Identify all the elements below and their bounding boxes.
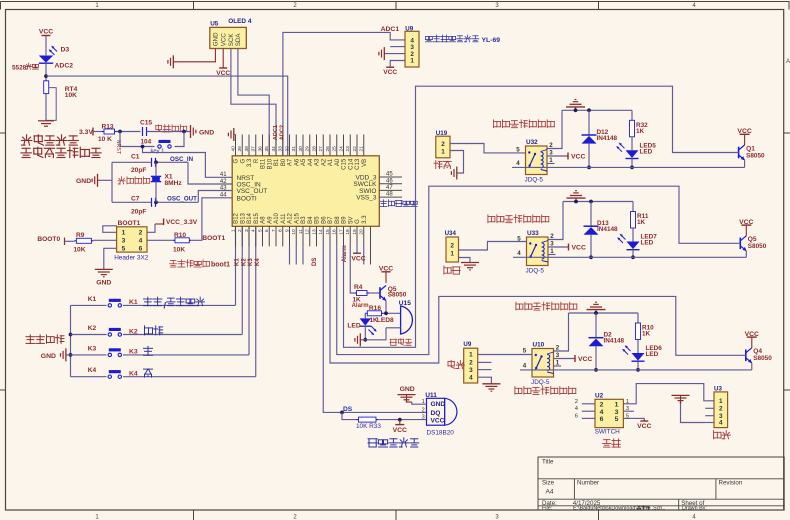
svg-text:3: 3 <box>626 406 629 412</box>
resistor R9 <box>74 240 76 242</box>
svg-text:GND: GND <box>431 401 446 408</box>
MCU right pins 45-48 <box>379 176 402 178</box>
wire relay pin1 stub <box>547 163 555 165</box>
label 水泵 <box>434 161 451 169</box>
wire OLED SCK to pin34 <box>231 49 276 156</box>
svg-text:33: 33 <box>278 146 284 152</box>
pin stub <box>705 400 714 402</box>
svg-text:2: 2 <box>719 406 723 413</box>
wire OLED SDA to pin35 <box>238 49 269 156</box>
svg-text:20pF: 20pF <box>131 167 146 174</box>
wire <box>631 159 633 168</box>
wire relay pin2 to rail <box>548 202 563 240</box>
power VCC (soil sensor) <box>386 66 394 68</box>
svg-text:24: 24 <box>338 146 344 152</box>
svg-text:B12: B12 <box>234 212 240 223</box>
svg-text:K2: K2 <box>129 328 138 335</box>
svg-text:34: 34 <box>271 146 277 152</box>
wire <box>156 161 189 163</box>
svg-text:U11: U11 <box>425 392 437 399</box>
svg-text:G: G <box>234 158 240 163</box>
ground (relay 2) <box>575 198 577 201</box>
wire <box>65 240 75 242</box>
diode D13 IN4148 <box>590 202 592 227</box>
svg-text:B14: B14 <box>247 212 253 223</box>
wire <box>450 151 464 174</box>
svg-text:Size: Size <box>542 480 555 487</box>
svg-text:1: 1 <box>719 398 723 405</box>
svg-text:1: 1 <box>626 399 629 405</box>
svg-text:2: 2 <box>441 141 445 148</box>
LED LED7 <box>632 228 634 242</box>
svg-text:DS: DS <box>312 258 318 266</box>
svg-text:LED: LED <box>640 148 653 155</box>
svg-text:5: 5 <box>626 413 629 419</box>
ground (crystal) <box>98 179 113 181</box>
svg-text:LED: LED <box>646 351 659 358</box>
svg-text:38: 38 <box>244 146 250 152</box>
svg-text:B13: B13 <box>240 212 246 223</box>
svg-text:GND: GND <box>400 386 415 393</box>
svg-text:C15: C15 <box>140 120 152 127</box>
svg-text:VB: VB <box>362 159 368 167</box>
wire <box>390 61 405 68</box>
svg-text:JDQ-5: JDQ-5 <box>531 379 550 386</box>
svg-text:boot1: boot1 <box>211 262 230 269</box>
label 继电器控制电路 (4) <box>515 387 576 395</box>
svg-text:C1: C1 <box>131 153 140 160</box>
svg-text:10: 10 <box>291 229 297 235</box>
capacitor C15 <box>142 127 144 136</box>
label 风扇 <box>444 266 460 274</box>
wire <box>588 143 590 167</box>
svg-text:4: 4 <box>517 250 521 257</box>
svg-text:S8050: S8050 <box>388 292 407 299</box>
svg-text:VCC: VCC <box>383 69 397 76</box>
crystal X1 <box>151 175 161 177</box>
ground (U19) <box>456 167 458 180</box>
resistor R32 1K <box>631 110 633 120</box>
svg-text:BOOTI: BOOTI <box>237 195 257 202</box>
relay U32 JDQ-5 <box>526 146 548 175</box>
svg-text:4: 4 <box>719 420 723 427</box>
svg-text:10K: 10K <box>65 92 77 99</box>
pin stub <box>705 422 714 424</box>
svg-text:12: 12 <box>305 229 311 235</box>
wire rail <box>562 109 632 111</box>
connector U9 soil sensor <box>405 31 419 67</box>
svg-text:U3: U3 <box>714 385 722 392</box>
svg-text:Revision: Revision <box>719 480 743 487</box>
svg-text:104: 104 <box>141 138 152 145</box>
wire <box>478 377 492 384</box>
svg-text:B5: B5 <box>315 216 321 224</box>
resistor R11 1K <box>632 202 634 212</box>
wire <box>112 201 152 203</box>
svg-text:11: 11 <box>298 229 304 234</box>
wire Q1 base from MCU pin17 <box>344 86 739 347</box>
svg-text:B4: B4 <box>308 216 314 224</box>
svg-text:B1: B1 <box>274 158 280 166</box>
svg-text:OSC_OUT: OSC_OUT <box>167 196 197 203</box>
svg-text:B15: B15 <box>254 212 260 223</box>
svg-text:3: 3 <box>122 238 126 245</box>
svg-text:ADC1: ADC1 <box>273 125 279 140</box>
wire <box>112 161 152 163</box>
svg-text:4: 4 <box>469 374 473 381</box>
wire K2 to MCU <box>241 226 243 334</box>
svg-text:K4: K4 <box>129 371 138 378</box>
svg-text:VCC: VCC <box>637 423 651 430</box>
svg-text:5: 5 <box>523 348 527 355</box>
power VCC (relay coil) <box>548 246 569 248</box>
svg-text:C14: C14 <box>348 158 354 170</box>
wire emitter <box>745 251 747 257</box>
svg-text:37: 37 <box>251 146 257 152</box>
power VCC_3.3V <box>147 224 155 232</box>
svg-text:B6: B6 <box>321 216 327 224</box>
wire pin20 stub <box>363 246 365 264</box>
svg-text:K2: K2 <box>88 325 97 332</box>
connector U9 light <box>464 348 478 383</box>
svg-text:1: 1 <box>450 250 454 257</box>
wire <box>364 326 366 340</box>
transistor Q4 S8050 <box>745 350 747 362</box>
ground (MCU pin40) <box>234 134 236 136</box>
svg-text:U9: U9 <box>405 25 413 32</box>
svg-text:Alarm: Alarm <box>352 303 369 309</box>
pin stub <box>623 410 634 412</box>
svg-text:43: 43 <box>220 185 227 191</box>
svg-text:K3: K3 <box>88 345 97 352</box>
power VCC (MCU pin19) <box>356 246 358 253</box>
svg-text:SWITCH: SWITCH <box>595 429 621 436</box>
wire <box>459 242 527 251</box>
wire <box>681 403 706 423</box>
svg-text:SCK: SCK <box>228 33 235 47</box>
LED (buzzer) <box>364 313 366 318</box>
wire reset button loop <box>120 132 155 147</box>
svg-text:DQ: DQ <box>431 410 441 417</box>
wire <box>637 361 639 370</box>
wire Alarm pin18 <box>350 246 354 293</box>
svg-text:C15: C15 <box>342 158 348 170</box>
wire Q4 base from MCU pin15 <box>330 246 746 363</box>
svg-text:1: 1 <box>615 401 619 408</box>
svg-text:4: 4 <box>516 160 520 167</box>
wire pins 9-11 stubs <box>289 246 291 264</box>
svg-text:IN4148: IN4148 <box>604 338 625 345</box>
pin stub <box>390 46 405 48</box>
svg-text:30: 30 <box>298 146 304 152</box>
svg-text:File:: File: <box>542 506 552 512</box>
svg-text:A11: A11 <box>281 213 287 224</box>
pushbutton K3 <box>71 354 107 356</box>
capacitor C7 <box>151 198 153 207</box>
capacitor C1 <box>151 158 153 167</box>
label 蜂鸣器 <box>390 339 412 346</box>
svg-text:GND: GND <box>76 178 91 185</box>
svg-text:31: 31 <box>291 146 297 152</box>
svg-text:15: 15 <box>325 229 331 235</box>
svg-text:ADC2: ADC2 <box>55 63 74 70</box>
pushbutton K4 <box>71 376 107 378</box>
wire BOOT1 to MCU pin44 <box>191 198 232 241</box>
svg-text:SDA: SDA <box>235 33 242 47</box>
svg-text:K1: K1 <box>129 299 138 306</box>
svg-text:DS: DS <box>343 406 353 413</box>
wire <box>93 131 102 133</box>
svg-text:Q1: Q1 <box>746 145 755 152</box>
svg-text:20: 20 <box>359 229 365 235</box>
wire <box>93 239 116 241</box>
svg-text:32: 32 <box>284 146 290 152</box>
svg-text:A10: A10 <box>274 212 280 223</box>
svg-text:3: 3 <box>615 409 619 416</box>
svg-text:10K R33: 10K R33 <box>356 423 381 430</box>
wire relay pin1 stub <box>554 365 562 367</box>
ground (light sensor) <box>38 120 54 122</box>
svg-text:A7: A7 <box>288 158 294 166</box>
svg-text:41: 41 <box>220 172 227 178</box>
svg-text:C7: C7 <box>131 195 140 202</box>
svg-text:6: 6 <box>575 413 578 419</box>
wire <box>378 419 427 421</box>
svg-text:U2: U2 <box>595 393 604 400</box>
wire relay coil line <box>512 166 745 168</box>
svg-text:LED: LED <box>641 240 654 247</box>
wire <box>342 412 357 419</box>
pin stub <box>582 403 595 405</box>
svg-text:A15: A15 <box>294 212 300 223</box>
svg-text:47: 47 <box>386 185 393 191</box>
svg-text:VCC: VCC <box>393 427 407 434</box>
svg-text:3: 3 <box>469 367 473 374</box>
svg-text:DS18B20: DS18B20 <box>427 429 455 436</box>
label 开关 <box>603 439 621 447</box>
svg-text:40: 40 <box>230 146 236 152</box>
svg-text:U34: U34 <box>445 230 457 237</box>
svg-text:20pF: 20pF <box>131 209 146 216</box>
svg-text:8MHz: 8MHz <box>165 180 183 187</box>
label 程序下载口 <box>380 200 417 207</box>
relay U10 JDQ-5 <box>532 349 554 378</box>
wire <box>478 354 532 356</box>
wire ADC1 to MCU pin33 <box>283 32 405 155</box>
svg-text:3: 3 <box>422 415 425 421</box>
svg-text:1: 1 <box>230 229 236 232</box>
svg-text:S8050: S8050 <box>746 152 765 159</box>
wire OSC_IN to MCU pin42 <box>188 162 232 184</box>
wire emitter <box>751 363 753 370</box>
wire <box>384 312 401 314</box>
svg-text:VCC: VCC <box>39 29 53 36</box>
svg-text:2: 2 <box>450 243 454 250</box>
svg-text:OLED 4: OLED 4 <box>228 18 252 25</box>
wire <box>385 53 406 55</box>
MCU bottom pins 1-20 <box>235 226 237 246</box>
svg-text:GND: GND <box>199 129 214 136</box>
wire <box>459 258 471 263</box>
wire <box>595 346 597 370</box>
LED LED6 <box>637 340 639 354</box>
wire button left rail <box>70 305 72 376</box>
svg-text:K3: K3 <box>248 258 254 266</box>
svg-text:6: 6 <box>600 416 604 423</box>
svg-text:2: 2 <box>139 230 143 237</box>
svg-text:6: 6 <box>264 229 270 232</box>
label 继电器控制电路 (3) <box>516 302 577 310</box>
wire <box>117 131 141 133</box>
ground (U9 light) <box>482 383 500 385</box>
pin stub <box>705 407 714 409</box>
resistor R10 1K <box>637 313 639 323</box>
ground (reset) <box>190 125 192 138</box>
label 晶振电路 <box>118 177 150 184</box>
svg-text:17: 17 <box>338 229 344 235</box>
wire <box>147 131 191 133</box>
svg-text:42: 42 <box>220 179 227 185</box>
wire left rail <box>111 162 113 202</box>
pin stub <box>623 403 634 405</box>
svg-text:9: 9 <box>284 229 290 232</box>
svg-text:JDQ-5: JDQ-5 <box>525 177 544 184</box>
diode D2 IN4148 <box>595 313 597 338</box>
svg-text:U9: U9 <box>463 341 471 348</box>
svg-text:3.3: 3.3 <box>362 215 368 224</box>
svg-text:1K: 1K <box>642 331 651 338</box>
wire U2 pin1 to U3 pin1 <box>634 384 705 404</box>
svg-text:K2: K2 <box>241 258 247 266</box>
svg-text:21: 21 <box>359 146 365 152</box>
svg-text:YL-69: YL-69 <box>482 37 501 44</box>
svg-text:5: 5 <box>615 416 619 423</box>
photoresistor RT4 <box>44 81 49 94</box>
svg-text:G: G <box>355 219 361 224</box>
resistor R13 <box>102 131 104 133</box>
svg-text:R10: R10 <box>174 232 186 239</box>
relay U33 JDQ-5 <box>527 237 549 266</box>
svg-text:U32: U32 <box>526 139 538 146</box>
svg-text:B9: B9 <box>342 216 348 224</box>
ground (buttons) <box>66 354 71 356</box>
svg-text:5: 5 <box>257 229 263 232</box>
pin stub <box>705 415 714 417</box>
pushbutton K2 <box>71 334 107 336</box>
svg-text:A0: A0 <box>335 158 341 166</box>
svg-text:39: 39 <box>237 146 243 152</box>
svg-text:B10: B10 <box>267 158 273 169</box>
wire <box>104 248 117 269</box>
buzzer U15 <box>401 306 413 334</box>
svg-text:LED: LED <box>347 323 360 330</box>
svg-text:A4: A4 <box>546 489 554 496</box>
svg-text:48: 48 <box>386 192 393 198</box>
svg-text:LED8: LED8 <box>377 317 394 324</box>
svg-text:VCC: VCC <box>571 154 585 161</box>
svg-text:K4: K4 <box>255 258 261 266</box>
label 光照传感器 <box>22 135 79 145</box>
wire <box>632 250 634 258</box>
power VCC (light sensor) <box>42 35 51 37</box>
svg-text:2: 2 <box>600 401 604 408</box>
svg-text:S8050: S8050 <box>748 243 767 250</box>
svg-text:B3: B3 <box>301 216 307 224</box>
svg-text:U19: U19 <box>436 130 448 137</box>
svg-text:R: R <box>254 158 260 163</box>
svg-text:A8: A8 <box>261 216 267 224</box>
svg-text:GND: GND <box>96 280 111 287</box>
power VCC (U2 pin5) <box>634 417 644 419</box>
svg-text:A12: A12 <box>288 212 294 223</box>
svg-text:VCC_3.3V: VCC_3.3V <box>166 219 198 226</box>
svg-text:16: 16 <box>332 229 338 235</box>
svg-text:IN4148: IN4148 <box>597 135 618 142</box>
svg-text:A4: A4 <box>308 158 314 166</box>
svg-text:4: 4 <box>600 409 604 416</box>
svg-text:IN4148: IN4148 <box>597 226 618 233</box>
wire emitter <box>744 160 746 167</box>
svg-text:26: 26 <box>325 146 331 152</box>
pin stub <box>623 417 634 419</box>
label 单片机最小系统 <box>21 147 101 157</box>
resistor R16 <box>365 312 367 314</box>
wire relay pin1 stub <box>548 254 556 256</box>
svg-text:key 1: key 1 <box>151 148 165 154</box>
svg-text:10 K: 10 K <box>98 136 112 143</box>
connector U3 power <box>714 392 728 428</box>
wire NRST to MCU pin41 <box>143 147 233 178</box>
title block <box>538 457 784 510</box>
svg-text:Title: Title <box>542 459 554 466</box>
connector U34 fan <box>446 237 459 262</box>
svg-text:4: 4 <box>139 238 143 245</box>
power VCC (OLED) <box>222 49 224 69</box>
svg-text:A9: A9 <box>267 216 273 224</box>
label 继电器控制电路 (1) <box>493 120 554 128</box>
svg-text:K4: K4 <box>88 367 97 374</box>
label 启动方式为boot1 <box>170 260 210 267</box>
svg-text:B11: B11 <box>261 158 267 169</box>
label 灯光 <box>448 361 464 369</box>
svg-text:.Sch..: .Sch.. <box>652 506 666 512</box>
svg-text:R16: R16 <box>369 305 381 312</box>
svg-text:E:\BaiduNetdiskDownload\..: E:\BaiduNetdiskDownload\.. <box>573 506 640 512</box>
svg-text:45: 45 <box>386 172 393 178</box>
svg-text:GND: GND <box>41 353 56 360</box>
LED LED5 <box>631 137 633 151</box>
svg-text:B0: B0 <box>281 158 287 166</box>
svg-text:1K: 1K <box>637 219 646 226</box>
switch U2 <box>595 399 623 427</box>
svg-text:25: 25 <box>332 146 338 152</box>
svg-text:U15: U15 <box>399 300 411 307</box>
svg-text:Q4: Q4 <box>753 348 762 355</box>
svg-text:A1: A1 <box>328 158 334 166</box>
svg-text:8: 8 <box>278 229 284 232</box>
svg-text:VCC: VCC <box>351 255 365 262</box>
svg-text:A: A <box>786 59 790 65</box>
svg-text:B7: B7 <box>328 216 334 224</box>
border frame <box>1 1 790 3</box>
svg-text:29: 29 <box>305 146 311 152</box>
svg-text:27: 27 <box>318 146 324 152</box>
wire relay pin2 to rail <box>547 110 562 148</box>
svg-text:ADC2: ADC2 <box>280 125 286 140</box>
ground (relay 1) <box>575 107 577 110</box>
svg-text:44: 44 <box>220 193 227 199</box>
svg-text:1: 1 <box>469 352 473 359</box>
